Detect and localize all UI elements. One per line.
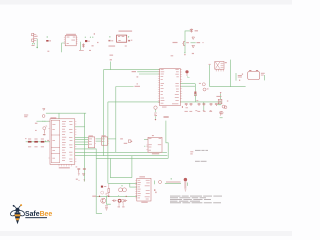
wire V106.4 and H204.2	[106, 196, 110, 204]
wire vertical x103.5	[103, 70, 105, 156]
U2 labels	[119, 31, 133, 32]
resistor R4 on x195	[194, 91, 196, 96]
right column faint text	[190, 151, 193, 152]
cap row below gnd bus	[185, 104, 218, 106]
wire U5 pin stub	[144, 138, 148, 140]
pushbutton S2	[159, 181, 162, 184]
JP1 labels	[36, 36, 38, 37]
wire box1 pins y137-144	[75, 136, 89, 138]
battery labels	[261, 73, 265, 74]
connector JP1	[32, 33, 38, 43]
K1 label	[225, 62, 227, 63]
LED ring	[118, 199, 121, 202]
MCU net labels	[110, 59, 112, 60]
wire vertical x110.3	[110, 158, 132, 177]
stubs below	[119, 202, 123, 206]
junction dot gnd bus bottom	[99, 196, 100, 197]
MCU pin text columns	[161, 68, 164, 71]
wire box1 to box2	[96, 138, 102, 140]
S1 labels	[216, 96, 221, 97]
bee body striped	[15, 212, 21, 224]
left IC U4 (RF module)	[50, 119, 75, 165]
thermistor TH1	[184, 178, 187, 181]
bottom cluster labels	[92, 196, 96, 197]
wire into U6 pins	[108, 182, 137, 184]
battery holder BT1	[248, 70, 260, 79]
wire gnd bus right	[180, 101, 222, 103]
green mark near S1	[218, 104, 222, 105]
cap C8	[105, 206, 108, 211]
resistor near box2	[128, 140, 131, 143]
wire U6 right stub	[154, 181, 156, 185]
zener diode top of Q1	[190, 29, 193, 33]
wire battery JP1 to ground	[36, 39, 38, 47]
LED D2	[185, 70, 188, 73]
resistor R3 solid	[85, 40, 87, 42]
resistor row labels	[28, 139, 31, 140]
wire vertical x131.9	[131, 156, 133, 178]
test point TP2	[192, 45, 195, 48]
green tiny label under thermo	[220, 116, 223, 119]
wire bus y152.3	[75, 151, 167, 153]
wire vertical x96.2	[75, 149, 102, 213]
wire MCU right y83.7	[180, 83, 195, 85]
wire vertical x195	[194, 84, 196, 102]
wire bus y155.7	[75, 155, 168, 157]
transistor Q2	[101, 198, 106, 203]
misc tiny marks	[171, 55, 174, 56]
wire U1 right	[80, 42, 82, 50]
caps C6 C7	[77, 168, 86, 181]
junction dot x195	[195, 92, 196, 93]
bee wings	[9, 209, 25, 217]
wire stub into left IC top	[58, 113, 60, 119]
U4 left inner marks	[52, 123, 55, 126]
MOSFET Q1	[182, 41, 185, 46]
capacitor C4 polarized	[238, 73, 243, 77]
relay K1	[215, 61, 224, 71]
wire cap drop x203.8	[203, 102, 205, 111]
test point TP1	[192, 37, 195, 40]
wire relay drop	[209, 65, 211, 87]
faint transistor circle above bus	[101, 191, 104, 194]
wire MCU right y86.2	[180, 85, 195, 87]
resistor R5	[28, 141, 32, 143]
resistor R6	[34, 141, 38, 143]
switch S1 with X	[218, 99, 222, 103]
IC U2 small box	[117, 35, 127, 42]
top small marks	[195, 109, 197, 112]
EEPROM U5	[148, 137, 162, 152]
wire U1 left L	[62, 43, 65, 52]
resistor R? near JP1	[46, 40, 48, 42]
wire U6 pin stub2	[130, 183, 137, 187]
wire bus y158.4	[96, 157, 168, 159]
thermo small top	[220, 111, 222, 113]
resistor R7	[41, 141, 45, 143]
buzzer circles	[222, 105, 225, 108]
crystal labels	[199, 83, 201, 84]
U6 labels	[139, 176, 145, 177]
wire y86.5 to label	[116, 86, 134, 88]
wire thermistor stub	[187, 183, 189, 186]
component dark mark	[101, 186, 103, 188]
antenna symbol	[42, 109, 45, 118]
crystal Y1 circles	[202, 83, 205, 86]
IC box1 (level shifter)	[88, 137, 94, 148]
bee antennae	[14, 205, 21, 208]
wire bus y86.7 right	[210, 86, 246, 88]
wire Q1 drain	[185, 31, 190, 53]
wire MCU pin2 stub	[137, 71, 160, 73]
wire box2 right	[108, 138, 116, 140]
sounder circles	[119, 188, 123, 192]
diode + cap chain below MCU left	[154, 106, 157, 119]
wire left IC pin y121	[37, 120, 51, 122]
caps C6 C7 labels	[76, 166, 78, 167]
wire net label vertical x165.9	[166, 121, 168, 159]
diode D1 by U1	[82, 43, 84, 48]
bottom IC U6	[137, 178, 151, 201]
mark pair	[106, 193, 108, 196]
green junction dots	[32, 36, 189, 186]
cap row under bus: cap left	[112, 200, 117, 202]
cap right	[125, 200, 128, 202]
top gray band	[0, 0, 292, 5]
bottom gray band	[0, 231, 292, 236]
wire gnd bus bottom	[96, 195, 137, 197]
wire reset net	[165, 182, 181, 184]
ground dot JP1	[36, 47, 38, 49]
LED D3 left	[43, 125, 47, 133]
U1 labels	[66, 34, 76, 35]
MCU U3	[160, 69, 181, 106]
wire resistor row links	[26, 141, 28, 143]
box1 box2 labels	[89, 135, 93, 136]
wire stub x220	[220, 94, 222, 100]
wire long vertical x84.5	[84, 113, 86, 181]
wire Q1 gate stub	[191, 42, 196, 44]
U4 labels above/below	[51, 117, 57, 118]
wire VCC vertical right top	[229, 60, 231, 87]
Q1 labels	[195, 30, 198, 31]
U4 pin text column	[62, 120, 66, 123]
cap row labels	[185, 111, 188, 112]
U5 labels	[152, 135, 154, 136]
wire antenna horiz y113	[46, 112, 86, 114]
node dots misc	[32, 43, 33, 44]
wire battery holder stub	[264, 75, 266, 80]
bee head	[15, 208, 19, 212]
antenna labels	[24, 115, 28, 116]
junction dots on bottom bus	[108, 196, 109, 197]
wire cap C4 stem	[235, 73, 237, 81]
circle outline	[121, 199, 124, 202]
ground Q1	[184, 53, 186, 56]
IC U1 (accelerometer)	[65, 36, 76, 46]
IC box2 (regulator)	[102, 137, 108, 145]
wire net stub above MCU	[110, 62, 112, 70]
resistor R9 vertical	[108, 184, 110, 196]
wire gnd bus left	[108, 101, 160, 103]
wire left IC pin y126.8	[75, 126, 85, 128]
wire vertical x107.9	[107, 102, 109, 183]
wire vertical x115.8	[115, 87, 117, 153]
wire MCU pin3 stub	[139, 73, 160, 75]
wire MCU pin1	[104, 69, 160, 71]
mark on x220	[220, 92, 222, 94]
